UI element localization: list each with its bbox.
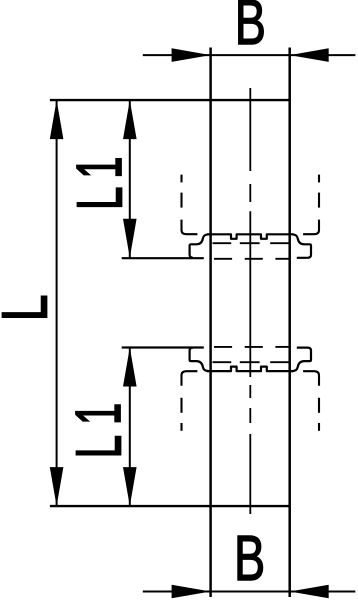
arrow L1 bottom down <box>123 467 137 506</box>
bottom clamp hidden channel right <box>303 371 319 431</box>
top clamp left foot <box>190 234 209 257</box>
extension line top (foot bottom) <box>122 257 204 259</box>
extension line bottom (foot top) <box>122 346 204 348</box>
bottom clamp hidden row mid <box>213 361 290 363</box>
top clamp top edge with notches <box>207 234 294 239</box>
top clamp hidden row mid <box>213 242 290 244</box>
dimension B bottom line <box>143 591 356 593</box>
bottom clamp right foot <box>292 348 311 372</box>
arrow L1 top up <box>123 100 137 139</box>
dimension L line <box>56 100 58 506</box>
svg-text:B: B <box>234 522 265 594</box>
arrow B top right <box>290 48 329 62</box>
top clamp hidden channel left <box>182 175 198 235</box>
svg-text:L: L <box>64 435 135 458</box>
rail right edge <box>288 48 291 598</box>
arrow L1 bottom up <box>123 348 137 387</box>
arrow L top <box>50 100 64 139</box>
svg-text:B: B <box>235 0 266 58</box>
arrow B bottom right <box>290 585 329 599</box>
svg-text:L: L <box>65 187 136 210</box>
bottom clamp bottom edge with notches <box>207 367 294 372</box>
top clamp hidden channel right <box>303 175 319 235</box>
top outline <box>50 99 290 101</box>
svg-text:1: 1 <box>63 403 134 425</box>
center line <box>249 88 251 514</box>
top clamp right foot <box>292 234 311 257</box>
top clamp hidden row low <box>214 258 289 260</box>
svg-text:L: L <box>0 295 60 322</box>
dimension L1 top line <box>129 100 131 258</box>
dimension B top line <box>143 54 356 56</box>
bottom clamp hidden row high <box>214 346 289 348</box>
rail left edge <box>209 48 212 598</box>
dimension L1 bottom line <box>129 348 131 507</box>
bottom clamp hidden channel left <box>182 371 198 431</box>
arrow B bottom left <box>172 585 211 599</box>
arrow B top left <box>172 48 211 62</box>
arrow L bottom <box>50 467 64 506</box>
svg-text:1: 1 <box>64 157 135 179</box>
bottom clamp left foot <box>190 348 209 372</box>
bottom outline <box>50 505 290 507</box>
arrow L1 top down <box>123 219 137 258</box>
